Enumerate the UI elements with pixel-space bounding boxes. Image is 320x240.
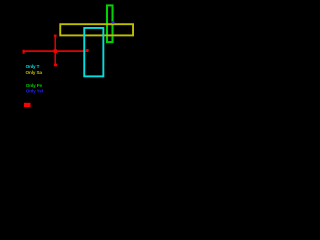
red block marker	[24, 103, 31, 107]
terminal cap bottom	[54, 64, 57, 67]
terminal cap left	[23, 50, 25, 54]
node blue dot	[112, 21, 115, 24]
junction dot red	[54, 49, 58, 53]
svg-text:Only Fe: Only Fe	[26, 83, 43, 88]
wire red vertical	[54, 35, 56, 66]
green rectangle component	[107, 5, 113, 42]
wire red horizontal	[23, 50, 89, 52]
svg-text:Only Yel: Only Yel	[26, 89, 43, 94]
terminal cap top	[54, 35, 57, 37]
terminal cap right	[86, 49, 89, 52]
yellow rectangle component	[60, 24, 133, 35]
svg-text:Only T: Only T	[26, 64, 40, 69]
cyan rectangle component	[84, 28, 103, 76]
svg-text:Only Sa: Only Sa	[26, 70, 43, 75]
